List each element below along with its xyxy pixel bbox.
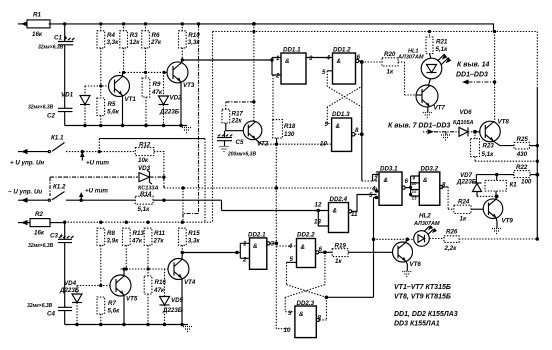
resistor R8 <box>97 228 119 285</box>
wire dotted control line y188 <box>164 186 377 190</box>
wire x183 riser <box>164 177 183 213</box>
svg-text:22к: 22к <box>231 118 243 125</box>
transistor VT8 <box>480 119 514 146</box>
capacitor C4 <box>27 303 72 325</box>
svg-text:1: 1 <box>276 55 280 62</box>
svg-text:R3: R3 <box>130 32 138 39</box>
led HL1 <box>397 49 451 79</box>
capacitor C1 <box>38 24 75 108</box>
wire channel1 bottom rail <box>65 124 187 127</box>
svg-text:АЛ307АМ: АЛ307АМ <box>397 55 424 61</box>
resistor R7 <box>97 297 120 325</box>
resistor R21 <box>426 32 448 59</box>
node VT4 collector <box>181 251 237 254</box>
wire VT8 collector feed <box>494 32 496 122</box>
svg-text:200мк×6,3В: 200мк×6,3В <box>227 152 256 158</box>
svg-text:R6: R6 <box>152 32 160 39</box>
svg-text:&: & <box>299 311 304 318</box>
svg-text:R2: R2 <box>35 211 43 218</box>
svg-text:+ U упр. Uн: + U упр. Uн <box>10 160 44 167</box>
transistor VT3 <box>167 60 195 126</box>
svg-text:VT8: VT8 <box>498 119 510 126</box>
input arrow 3 control <box>8 189 48 203</box>
wire K viv7 arrow and ground <box>423 129 459 140</box>
svg-text:&: & <box>333 208 338 215</box>
svg-text:К выв. 14: К выв. 14 <box>457 62 489 69</box>
svg-text:5,1к: 5,1к <box>436 46 449 53</box>
svg-text:5: 5 <box>369 192 373 199</box>
svg-text:3: 3 <box>271 241 275 248</box>
svg-text:&: & <box>301 244 306 251</box>
transistor VT2 <box>243 121 269 147</box>
text parts list <box>394 284 458 328</box>
svg-text:27к: 27к <box>150 39 162 46</box>
wire to DD2.4 <box>222 200 319 210</box>
resistor R3 <box>120 24 140 73</box>
ground VT9 <box>492 229 502 234</box>
svg-text:16к: 16к <box>32 31 43 38</box>
svg-text:VT1: VT1 <box>125 96 137 103</box>
svg-text:12к: 12к <box>129 39 140 46</box>
svg-text:5,1к: 5,1к <box>138 206 151 213</box>
diode VD5 <box>160 269 184 325</box>
svg-text:VT7: VT7 <box>434 105 446 112</box>
svg-text:VD2: VD2 <box>170 95 183 102</box>
svg-text:DD1–DD3: DD1–DD3 <box>456 72 488 79</box>
svg-text:− U упр. Uи: − U упр. Uи <box>8 189 42 196</box>
svg-text:32мк×6,3В: 32мк×6,3В <box>28 243 54 249</box>
svg-text:DD1.3: DD1.3 <box>332 111 350 118</box>
resistor R12 <box>135 142 164 178</box>
svg-text:DD1, DD2 К155ЛА3: DD1, DD2 К155ЛА3 <box>394 311 458 318</box>
resistor R15 <box>179 228 201 252</box>
wire latch2 cross <box>285 252 328 320</box>
svg-text:К1: К1 <box>510 182 518 189</box>
wire top supply rail B dotted <box>213 31 538 33</box>
svg-text:VD1: VD1 <box>61 92 74 99</box>
svg-text:3,3к: 3,3к <box>188 238 201 245</box>
wire latch1 cross <box>327 62 362 134</box>
diode VD4 <box>59 280 82 325</box>
diode VD6 <box>453 109 481 136</box>
svg-text:C4: C4 <box>47 311 55 318</box>
resistor R24 <box>442 187 485 223</box>
svg-text:R13: R13 <box>133 230 145 237</box>
relay K1 <box>477 175 517 199</box>
transistor VT5 <box>110 267 138 324</box>
resistor R14 <box>135 191 221 213</box>
diode VD2 <box>159 72 183 125</box>
svg-text:Д223Б: Д223Б <box>162 307 183 314</box>
ground VT7 <box>423 113 433 118</box>
svg-text:47к: 47к <box>131 238 143 245</box>
wire dashed base line top channel <box>119 71 167 74</box>
svg-text:&: & <box>423 177 428 184</box>
wire K1.2 dashdot corner <box>50 177 64 196</box>
wire zener line dashdot <box>64 176 138 178</box>
svg-text:VT3: VT3 <box>183 82 195 89</box>
wire K viv14 tap <box>456 62 496 85</box>
transistor VT4 <box>168 253 196 325</box>
wire vertical x276.3 feedback <box>275 144 279 243</box>
node VT3 collector <box>181 58 272 61</box>
svg-text:C5: C5 <box>236 139 244 146</box>
svg-text:13: 13 <box>412 196 418 201</box>
gate DD2.2 <box>287 232 333 268</box>
wire DD1.2 out feedback vertical <box>361 62 363 181</box>
capacitor C3 <box>28 222 74 307</box>
svg-text:5,6к: 5,6к <box>107 109 120 116</box>
resistor R26 <box>444 229 540 253</box>
svg-text:R8: R8 <box>107 230 115 237</box>
wire DD2.1 out to DD2.3 pin10 <box>276 243 290 328</box>
svg-text:16к: 16к <box>34 230 45 237</box>
svg-text:R4: R4 <box>107 32 115 39</box>
wire riser to line 138 <box>99 139 205 223</box>
svg-text:К1.2: К1.2 <box>53 184 66 191</box>
svg-text:12: 12 <box>315 202 322 209</box>
svg-text:R7: R7 <box>108 300 116 307</box>
gate DD2.4 <box>314 195 377 233</box>
wire R17 top dashed <box>226 101 254 103</box>
svg-text:3: 3 <box>309 55 313 62</box>
svg-text:2,2к: 2,2к <box>444 245 458 252</box>
wire DD3.1 out bracket <box>409 176 419 201</box>
resistor R18 <box>273 75 296 144</box>
wire VT2 emitter to R18 node <box>262 143 279 146</box>
resistor R4 <box>97 24 119 86</box>
svg-text:2: 2 <box>275 73 280 80</box>
transistor VT9 <box>483 196 513 228</box>
wire VT1 base line <box>85 84 109 87</box>
svg-text:100: 100 <box>521 179 532 186</box>
svg-text:3,9к: 3,9к <box>107 238 120 245</box>
svg-text:1к: 1к <box>387 69 394 76</box>
svg-text:&: & <box>384 177 389 184</box>
resistor R6 <box>142 24 162 73</box>
gate DD1.3 <box>277 111 364 151</box>
svg-text:9: 9 <box>325 121 329 128</box>
svg-text:Д223Б: Д223Б <box>456 179 477 186</box>
svg-text:C3 +: C3 + <box>50 233 64 240</box>
svg-text:Д223Б: Д223Б <box>59 287 80 294</box>
svg-text:К выв. 7 DD1–DD3: К выв. 7 DD1–DD3 <box>388 123 450 130</box>
wire channel2 bottom rail <box>65 323 188 326</box>
svg-text:R5: R5 <box>108 101 116 108</box>
resistor R17 <box>222 102 244 131</box>
svg-text:1: 1 <box>243 241 247 248</box>
resistor R16 <box>144 269 166 325</box>
svg-text:130: 130 <box>284 131 295 138</box>
node +U pit tap 2 <box>79 188 108 199</box>
svg-text:VT5: VT5 <box>126 296 138 303</box>
svg-text:&: & <box>285 58 290 65</box>
svg-text:32мк×6,3В: 32мк×6,3В <box>28 105 54 111</box>
svg-text:10к: 10к <box>138 157 149 164</box>
svg-text:C1 +: C1 + <box>54 35 68 42</box>
svg-text:HL2: HL2 <box>419 213 431 220</box>
resistor R10 <box>179 24 201 60</box>
resistor R22 <box>476 164 539 186</box>
wire DD3.1 pin5 feedback vertical <box>326 198 375 298</box>
zener VD3 <box>138 165 166 192</box>
svg-text:К1.1: К1.1 <box>51 135 64 142</box>
ground channel2 <box>183 327 193 332</box>
gate DD1.1 <box>270 47 332 85</box>
svg-text:10: 10 <box>284 327 291 334</box>
svg-text:3,3к: 3,3к <box>107 39 120 46</box>
switch K1.2 <box>48 184 135 202</box>
svg-text:R15: R15 <box>188 230 200 237</box>
svg-text:4: 4 <box>288 243 293 250</box>
svg-text:АЛ307АМ: АЛ307АМ <box>413 221 440 227</box>
resistor R20 <box>362 51 417 95</box>
svg-text:47к: 47к <box>151 89 163 96</box>
svg-text:R20: R20 <box>384 51 396 58</box>
svg-text:VD4: VD4 <box>64 280 77 287</box>
svg-text:R14: R14 <box>140 191 152 198</box>
svg-text:R22: R22 <box>516 164 528 171</box>
capacitor C5 <box>217 131 256 158</box>
svg-text:Д223Б: Д223Б <box>159 109 180 116</box>
svg-text:VT8, VT9 КТ815Б: VT8, VT9 КТ815Б <box>394 294 451 301</box>
wire channel2 top rail <box>63 221 213 224</box>
svg-text:C2: C2 <box>47 113 55 120</box>
gate DD2.1 <box>235 232 296 270</box>
wire dashed base line channel2 <box>121 267 168 270</box>
svg-text:1к: 1к <box>460 216 467 223</box>
svg-text:VD6: VD6 <box>460 109 473 116</box>
svg-text:DD3 К155ЛА1: DD3 К155ЛА1 <box>394 321 440 328</box>
svg-text:47к: 47к <box>153 287 165 294</box>
ground channel1 <box>182 128 192 133</box>
transistor VT1 <box>109 72 137 125</box>
svg-text:9: 9 <box>413 176 416 181</box>
svg-text:DD2.2: DD2.2 <box>297 232 315 239</box>
input arrow 2 control <box>10 149 48 167</box>
resistor R25 <box>514 136 539 158</box>
svg-text:R16: R16 <box>155 279 167 286</box>
svg-text:8: 8 <box>355 127 359 134</box>
capacitor C2 <box>28 105 73 126</box>
svg-text:13: 13 <box>314 219 321 226</box>
svg-text:32мк×6,3В: 32мк×6,3В <box>27 303 53 309</box>
wire top supply rail A <box>49 24 494 32</box>
svg-text:5,1к: 5,1к <box>482 151 495 158</box>
switch K1.1 <box>48 135 135 154</box>
gate DD1.2 <box>322 47 364 85</box>
svg-text:5: 5 <box>322 69 326 76</box>
wire vertical dashdot x198.5 <box>183 24 199 222</box>
resistor R5 <box>97 86 120 126</box>
svg-text:VT1–VT7 КТ315Б: VT1–VT7 КТ315Б <box>394 284 451 291</box>
node rail A junctions <box>63 22 256 26</box>
wire R23 bottom line <box>475 160 539 163</box>
svg-text:&: & <box>337 58 342 65</box>
svg-text:10: 10 <box>412 181 418 186</box>
svg-text:R1: R1 <box>33 12 41 19</box>
svg-text:4: 4 <box>326 55 331 62</box>
transistor VT7 <box>416 79 445 112</box>
resistor R11 <box>144 228 165 269</box>
wire vertical dotted x212.5 <box>212 32 214 223</box>
svg-text:&: & <box>336 123 341 130</box>
wire VT2 collector feed x254 <box>252 24 255 122</box>
resistor R13 <box>123 228 145 269</box>
resistor R9 <box>142 72 163 125</box>
svg-text:R12: R12 <box>139 142 151 149</box>
svg-text:R11: R11 <box>154 230 165 237</box>
svg-text:R23: R23 <box>483 143 495 150</box>
input arrow 1 <box>18 21 28 26</box>
svg-text:9: 9 <box>288 310 292 317</box>
svg-text:1к: 1к <box>335 258 342 265</box>
svg-text:R21: R21 <box>436 39 448 46</box>
svg-text:5,6к: 5,6к <box>108 308 121 315</box>
svg-text:&: & <box>253 243 258 250</box>
wire K viv7 text <box>388 123 450 130</box>
node +U pit tap 1 <box>80 152 109 167</box>
svg-text:R24: R24 <box>458 199 470 206</box>
transistor VT6 <box>393 238 422 277</box>
svg-text:32мк×6,3В: 32мк×6,3В <box>38 45 64 51</box>
diode VD1 <box>61 86 90 126</box>
svg-text:R18: R18 <box>284 123 296 130</box>
led HL2 <box>374 213 445 247</box>
input arrow 4 <box>18 220 30 225</box>
svg-text:430: 430 <box>516 151 528 158</box>
svg-text:R9: R9 <box>153 81 161 88</box>
svg-text:+U пит: +U пит <box>86 160 109 167</box>
svg-text:6: 6 <box>405 178 409 185</box>
resistor R19 <box>332 243 392 266</box>
svg-text:27к: 27к <box>153 238 165 245</box>
svg-text:VT9: VT9 <box>502 218 514 225</box>
svg-text:КД105А: КД105А <box>453 120 474 126</box>
svg-text:R26: R26 <box>446 229 458 236</box>
gate DD3.1 <box>362 166 411 206</box>
svg-text:12: 12 <box>412 189 418 194</box>
node rail B junctions <box>252 30 496 33</box>
gate DD2.3 <box>284 300 327 338</box>
resistor R2 <box>30 211 65 237</box>
svg-text:2: 2 <box>242 257 247 264</box>
svg-text:R17: R17 <box>232 111 244 118</box>
wire right supply rail <box>536 32 538 240</box>
resistor R1 <box>27 12 50 39</box>
diode VD7 <box>456 172 482 196</box>
svg-text:+U пит: +U пит <box>85 188 108 195</box>
gate DD3.2 <box>419 166 448 206</box>
resistor R23 <box>471 132 495 161</box>
svg-text:VT6: VT6 <box>410 261 422 268</box>
wire VT5 base line <box>77 284 110 287</box>
svg-text:VT4: VT4 <box>184 279 196 286</box>
